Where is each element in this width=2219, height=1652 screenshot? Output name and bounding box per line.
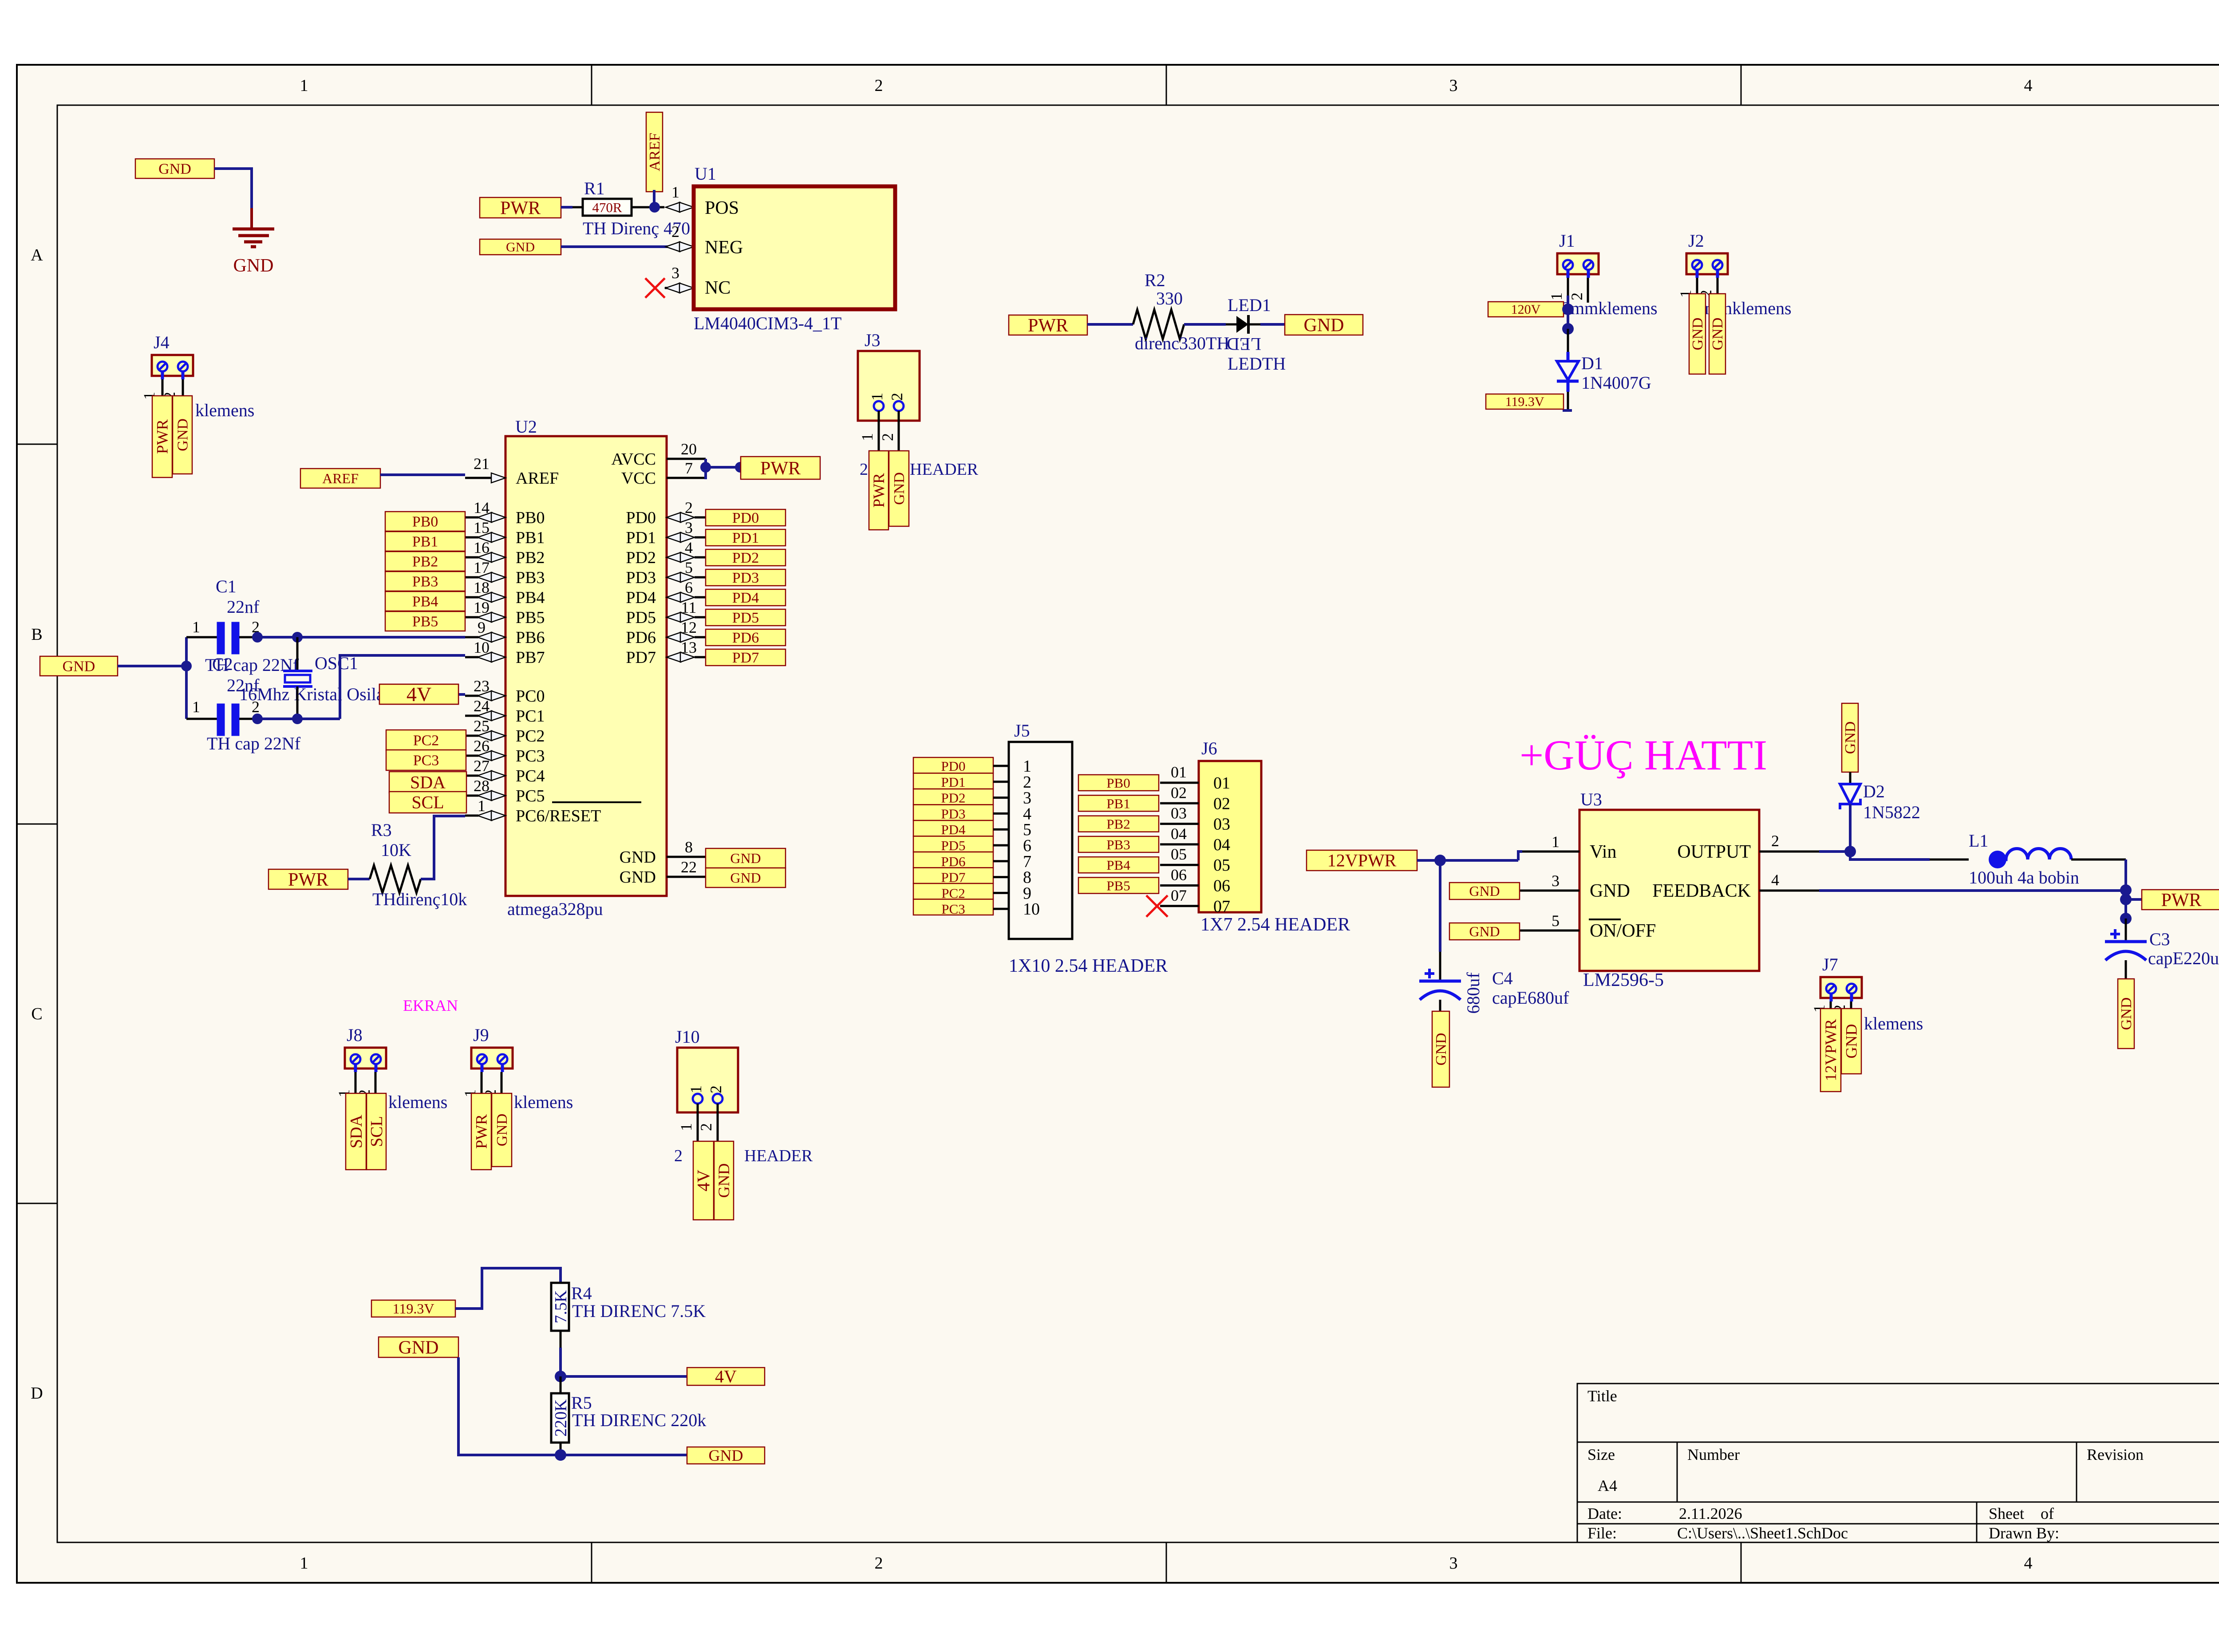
svg-text:2: 2: [674, 1147, 683, 1165]
svg-text:HEADER: HEADER: [910, 460, 979, 479]
svg-text:2: 2: [685, 499, 693, 516]
svg-text:28: 28: [474, 777, 490, 795]
svg-text:1: 1: [192, 698, 200, 716]
svg-text:2: 2: [860, 460, 868, 479]
svg-text:PD1: PD1: [626, 528, 656, 547]
svg-text:1: 1: [868, 393, 886, 401]
svg-text:Vin: Vin: [1590, 842, 1616, 862]
svg-text:GND: GND: [1304, 315, 1344, 335]
svg-text:AREF: AREF: [322, 470, 359, 486]
svg-text:1N5822: 1N5822: [1863, 802, 1920, 822]
svg-text:GND: GND: [2118, 998, 2135, 1030]
svg-text:klemens: klemens: [1864, 1013, 1923, 1033]
svg-text:GND: GND: [1710, 318, 1726, 351]
svg-text:3mmklemens: 3mmklemens: [1562, 298, 1658, 318]
svg-text:PB0: PB0: [1106, 775, 1130, 791]
svg-text:10: 10: [474, 639, 490, 656]
svg-text:2: 2: [888, 393, 906, 401]
svg-text:PB5: PB5: [1106, 878, 1130, 894]
svg-text:PD5: PD5: [941, 838, 965, 853]
svg-text:3: 3: [1449, 76, 1458, 95]
svg-text:NEG: NEG: [705, 237, 743, 258]
svg-text:13: 13: [681, 639, 697, 656]
svg-text:direnc330TH: direnc330TH: [1135, 333, 1229, 353]
svg-text:PC5: PC5: [516, 787, 545, 805]
svg-text:1: 1: [300, 1554, 308, 1573]
svg-text:4: 4: [1771, 871, 1779, 889]
svg-text:J10: J10: [675, 1027, 700, 1047]
svg-text:PD3: PD3: [941, 806, 965, 821]
svg-text:2: 2: [875, 76, 883, 95]
svg-text:4: 4: [685, 539, 693, 556]
svg-text:GND: GND: [1469, 923, 1500, 939]
svg-text:3: 3: [685, 519, 693, 536]
svg-text:klemens: klemens: [388, 1092, 447, 1112]
svg-text:EKRAN: EKRAN: [403, 997, 458, 1014]
svg-text:PB5: PB5: [516, 608, 545, 627]
svg-text:GND: GND: [175, 418, 191, 451]
svg-text:PB1: PB1: [412, 534, 438, 550]
svg-text:14: 14: [474, 499, 490, 516]
svg-text:Size: Size: [1587, 1446, 1615, 1463]
svg-text:AVCC: AVCC: [611, 450, 656, 469]
svg-text:07: 07: [1171, 887, 1187, 904]
svg-text:GND: GND: [1843, 1024, 1860, 1059]
svg-text:5: 5: [685, 559, 693, 576]
svg-text:capE680uf: capE680uf: [1492, 988, 1569, 1008]
svg-text:05: 05: [1213, 856, 1230, 875]
svg-text:22nf: 22nf: [227, 675, 260, 695]
svg-text:1: 1: [858, 433, 876, 441]
svg-text:2: 2: [1771, 832, 1779, 850]
svg-text:04: 04: [1213, 836, 1230, 854]
svg-text:J3: J3: [865, 330, 880, 350]
svg-text:PD0: PD0: [732, 510, 759, 526]
svg-text:07: 07: [1213, 897, 1230, 916]
svg-text:GND: GND: [715, 1163, 733, 1198]
svg-text:Title: Title: [1587, 1387, 1617, 1405]
svg-text:GND: GND: [1690, 318, 1706, 351]
svg-text:PD5: PD5: [626, 608, 656, 627]
svg-text:PD3: PD3: [732, 570, 759, 586]
svg-text:22: 22: [681, 858, 697, 876]
svg-text:GND: GND: [1590, 881, 1630, 901]
svg-text:AREF: AREF: [647, 133, 663, 171]
svg-text:PWR: PWR: [870, 473, 888, 508]
svg-text:PD3: PD3: [626, 568, 656, 587]
svg-text:02: 02: [1171, 784, 1187, 801]
svg-text:THdirenç10k: THdirenç10k: [372, 889, 467, 909]
svg-text:PB0: PB0: [412, 514, 438, 530]
svg-text:VCC: VCC: [621, 469, 656, 488]
svg-text:PB1: PB1: [1106, 796, 1130, 811]
svg-text:Drawn By:: Drawn By:: [1989, 1524, 2059, 1542]
svg-text:11: 11: [681, 599, 697, 616]
svg-text:LED1: LED1: [1228, 295, 1271, 315]
svg-text:GND: GND: [891, 472, 908, 505]
svg-text:12: 12: [681, 619, 697, 636]
svg-text:GND: GND: [620, 848, 656, 867]
svg-text:220K: 220K: [552, 1399, 570, 1437]
svg-text:A: A: [31, 246, 43, 264]
svg-text:9: 9: [478, 619, 486, 636]
svg-text:C2: C2: [212, 654, 233, 674]
svg-text:18: 18: [474, 579, 490, 596]
svg-text:POS: POS: [705, 198, 739, 218]
svg-text:2: 2: [252, 698, 260, 716]
svg-text:J8: J8: [347, 1025, 363, 1045]
svg-text:R1: R1: [584, 178, 605, 198]
svg-text:119.3V: 119.3V: [393, 1301, 434, 1317]
svg-text:PD2: PD2: [626, 548, 656, 567]
svg-text:GND: GND: [158, 161, 191, 177]
svg-text:+GÜÇ HATTI: +GÜÇ HATTI: [1520, 731, 1767, 779]
svg-text:ON/OFF: ON/OFF: [1590, 921, 1656, 941]
svg-text:PD4: PD4: [941, 822, 966, 837]
svg-text:10K: 10K: [381, 840, 411, 860]
svg-text:4: 4: [2024, 76, 2033, 95]
svg-text:PWR: PWR: [500, 198, 541, 218]
svg-text:R4: R4: [571, 1283, 592, 1303]
svg-text:PWR: PWR: [2161, 890, 2201, 911]
svg-text:PC4: PC4: [516, 767, 545, 785]
svg-text:PB4: PB4: [1106, 857, 1130, 873]
svg-text:8: 8: [685, 838, 693, 856]
svg-text:1: 1: [687, 1085, 705, 1093]
svg-text:2: 2: [875, 1554, 883, 1573]
svg-text:1: 1: [677, 1123, 695, 1131]
svg-text:1: 1: [1552, 833, 1560, 851]
svg-text:4V: 4V: [407, 683, 431, 706]
svg-text:TH DIRENC 220k: TH DIRENC 220k: [572, 1410, 706, 1430]
svg-text:PC3: PC3: [516, 747, 545, 765]
svg-text:2: 2: [879, 433, 896, 441]
svg-text:of: of: [2041, 1505, 2054, 1522]
svg-text:Date:: Date:: [1587, 1505, 1622, 1522]
svg-text:PD1: PD1: [732, 530, 759, 546]
svg-text:B: B: [31, 625, 42, 644]
svg-text:25: 25: [474, 717, 490, 735]
svg-text:12VPWR: 12VPWR: [1327, 851, 1397, 871]
svg-text:19: 19: [474, 599, 490, 616]
svg-text:PD6: PD6: [732, 630, 759, 646]
svg-text:PWR: PWR: [760, 458, 801, 479]
svg-text:PB7: PB7: [516, 648, 545, 667]
svg-text:PD4: PD4: [732, 590, 759, 606]
svg-text:2: 2: [697, 1123, 715, 1131]
svg-text:PWR: PWR: [288, 870, 328, 890]
svg-text:2.11.2026: 2.11.2026: [1679, 1505, 1742, 1522]
svg-text:Sheet: Sheet: [1989, 1505, 2024, 1522]
svg-text:17: 17: [474, 559, 490, 576]
svg-text:3: 3: [1449, 1554, 1458, 1573]
svg-text:J4: J4: [154, 332, 170, 352]
svg-text:PC3: PC3: [941, 901, 965, 917]
svg-text:PC2: PC2: [941, 885, 965, 901]
svg-text:PB1: PB1: [516, 528, 545, 547]
svg-text:3: 3: [1552, 872, 1560, 890]
svg-text:HEADER: HEADER: [744, 1147, 813, 1165]
svg-text:330: 330: [1156, 288, 1183, 308]
svg-text:SDA: SDA: [410, 773, 446, 792]
svg-text:J7: J7: [1822, 954, 1838, 974]
svg-text:U3: U3: [1580, 789, 1602, 809]
svg-text:1X10 2.54 HEADER: 1X10 2.54 HEADER: [1009, 956, 1168, 976]
svg-text:R2: R2: [1145, 270, 1165, 290]
svg-text:1X7 2.54 HEADER: 1X7 2.54 HEADER: [1200, 915, 1350, 935]
svg-text:PD6: PD6: [941, 854, 965, 869]
svg-text:PC6/RESET: PC6/RESET: [516, 807, 601, 825]
svg-text:02: 02: [1213, 794, 1230, 813]
svg-text:120V: 120V: [1511, 302, 1541, 317]
svg-text:03: 03: [1171, 804, 1187, 822]
svg-text:C4: C4: [1492, 968, 1513, 988]
svg-text:NC: NC: [705, 278, 730, 298]
svg-text:05: 05: [1171, 845, 1187, 863]
svg-text:GND: GND: [63, 658, 95, 675]
svg-text:GND: GND: [1433, 1033, 1449, 1066]
svg-text:U1: U1: [695, 164, 716, 184]
svg-text:PD7: PD7: [941, 870, 965, 885]
svg-text:04: 04: [1171, 825, 1187, 843]
svg-text:20: 20: [681, 440, 697, 458]
svg-text:PB0: PB0: [516, 509, 545, 527]
svg-text:PC1: PC1: [516, 707, 545, 725]
svg-text:01: 01: [1171, 763, 1187, 781]
svg-text:15: 15: [474, 519, 490, 536]
svg-text:PD0: PD0: [941, 758, 965, 774]
svg-text:PB3: PB3: [1106, 837, 1130, 852]
svg-text:atmega328pu: atmega328pu: [507, 899, 603, 919]
svg-text:24: 24: [474, 697, 490, 715]
svg-text:TH cap 22Nf: TH cap 22Nf: [207, 733, 301, 753]
svg-text:J5: J5: [1014, 721, 1030, 741]
svg-text:SCL: SCL: [367, 1116, 386, 1147]
svg-text:AREF: AREF: [516, 469, 559, 488]
svg-text:PD5: PD5: [732, 610, 759, 626]
svg-text:4V: 4V: [694, 1170, 714, 1191]
svg-text:06: 06: [1171, 866, 1187, 884]
svg-text:2: 2: [1568, 292, 1586, 300]
svg-text:U2: U2: [515, 417, 537, 437]
svg-text:680uf: 680uf: [1463, 972, 1483, 1014]
svg-text:2: 2: [671, 223, 679, 241]
svg-text:7: 7: [685, 459, 693, 477]
svg-text:FEEDBACK: FEEDBACK: [1652, 881, 1751, 901]
svg-text:capE220uF: capE220uF: [2148, 948, 2219, 968]
svg-text:27: 27: [474, 757, 490, 775]
svg-text:470R: 470R: [592, 200, 622, 215]
svg-text:GND: GND: [730, 870, 761, 886]
svg-text:3: 3: [671, 264, 679, 282]
svg-text:GND: GND: [399, 1337, 439, 1358]
svg-text:PB3: PB3: [516, 568, 545, 587]
svg-text:Number: Number: [1687, 1446, 1740, 1463]
svg-text:LED: LED: [1227, 334, 1261, 354]
svg-text:C3: C3: [2149, 929, 2170, 949]
svg-text:PC2: PC2: [516, 727, 545, 745]
svg-text:2: 2: [707, 1085, 725, 1093]
svg-text:GND: GND: [709, 1447, 743, 1464]
svg-text:C:\Users\..\Sheet1.SchDoc: C:\Users\..\Sheet1.SchDoc: [1677, 1524, 1848, 1542]
svg-text:OUTPUT: OUTPUT: [1677, 842, 1751, 862]
svg-text:TH DIRENC 7.5K: TH DIRENC 7.5K: [572, 1301, 706, 1321]
svg-text:SDA: SDA: [347, 1114, 366, 1148]
svg-text:J2: J2: [1688, 231, 1704, 251]
svg-text:4: 4: [2024, 1554, 2033, 1573]
svg-text:PB4: PB4: [516, 588, 545, 607]
svg-text:12VPWR: 12VPWR: [1822, 1019, 1840, 1081]
svg-text:PD7: PD7: [626, 648, 656, 667]
svg-text:J9: J9: [473, 1025, 489, 1045]
svg-text:PB2: PB2: [412, 554, 438, 570]
svg-text:PC3: PC3: [413, 753, 439, 769]
svg-text:D2: D2: [1863, 781, 1885, 801]
svg-text:01: 01: [1213, 774, 1230, 792]
svg-text:PD7: PD7: [732, 650, 759, 666]
svg-text:PB4: PB4: [412, 594, 438, 610]
svg-text:PD0: PD0: [626, 509, 656, 527]
svg-text:PB6: PB6: [516, 628, 545, 647]
svg-text:PWR: PWR: [1028, 315, 1068, 336]
svg-text:PB2: PB2: [1106, 816, 1130, 832]
svg-text:1: 1: [1548, 292, 1565, 300]
svg-text:klemens: klemens: [195, 400, 254, 420]
svg-text:1: 1: [300, 76, 308, 95]
svg-text:03: 03: [1213, 815, 1230, 834]
svg-text:LM2596-5: LM2596-5: [1583, 970, 1664, 990]
svg-text:119.3V: 119.3V: [1505, 394, 1544, 409]
svg-text:A4: A4: [1598, 1477, 1617, 1494]
svg-text:GND: GND: [233, 256, 274, 276]
svg-text:R3: R3: [371, 820, 392, 840]
svg-text:PD6: PD6: [626, 628, 656, 647]
svg-text:21: 21: [474, 455, 490, 473]
svg-text:GND: GND: [620, 868, 656, 887]
svg-text:GND: GND: [494, 1114, 510, 1147]
svg-text:6: 6: [685, 579, 693, 596]
svg-text:LEDTH: LEDTH: [1228, 354, 1286, 374]
svg-text:J6: J6: [1201, 738, 1217, 758]
svg-text:D1: D1: [1581, 353, 1603, 373]
svg-text:PB2: PB2: [516, 548, 545, 567]
svg-text:LM4040CIM3-4_1T: LM4040CIM3-4_1T: [694, 313, 841, 333]
svg-text:23: 23: [474, 677, 490, 695]
svg-text:22nf: 22nf: [227, 597, 260, 617]
svg-text:PD2: PD2: [941, 790, 965, 806]
svg-text:16: 16: [474, 539, 490, 556]
svg-text:PD1: PD1: [941, 774, 965, 790]
svg-text:PC0: PC0: [516, 687, 545, 706]
svg-text:PD2: PD2: [732, 550, 759, 566]
svg-text:10: 10: [1023, 900, 1040, 919]
svg-text:1N4007G: 1N4007G: [1581, 373, 1651, 393]
svg-text:GND: GND: [730, 850, 761, 866]
svg-text:100uh 4a bobin: 100uh 4a bobin: [1969, 867, 2079, 887]
svg-text:GND: GND: [506, 240, 535, 255]
svg-text:06: 06: [1213, 877, 1230, 895]
svg-text:klemens: klemens: [514, 1092, 573, 1112]
svg-text:5: 5: [1552, 912, 1560, 930]
svg-text:C: C: [31, 1005, 42, 1023]
svg-text:1: 1: [192, 618, 200, 636]
svg-text:L1: L1: [1969, 831, 1988, 851]
svg-text:J1: J1: [1559, 231, 1575, 251]
svg-text:PB3: PB3: [412, 574, 438, 590]
svg-text:1: 1: [478, 797, 486, 815]
svg-text:PD4: PD4: [626, 588, 656, 607]
svg-text:C1: C1: [216, 576, 237, 596]
svg-text:PWR: PWR: [473, 1114, 490, 1149]
svg-text:PC2: PC2: [413, 733, 439, 749]
svg-text:Revision: Revision: [2087, 1446, 2144, 1463]
svg-text:7.5K: 7.5K: [552, 1290, 570, 1324]
svg-text:1: 1: [671, 183, 679, 201]
svg-text:D: D: [31, 1384, 43, 1403]
svg-text:GND: GND: [1469, 883, 1500, 899]
svg-text:4V: 4V: [715, 1367, 737, 1387]
svg-text:26: 26: [474, 737, 490, 755]
svg-text:File:: File:: [1587, 1524, 1617, 1542]
svg-text:PB5: PB5: [412, 614, 438, 630]
svg-text:SCL: SCL: [411, 792, 444, 812]
svg-text:PWR: PWR: [154, 419, 171, 454]
svg-text:GND: GND: [1842, 722, 1859, 754]
